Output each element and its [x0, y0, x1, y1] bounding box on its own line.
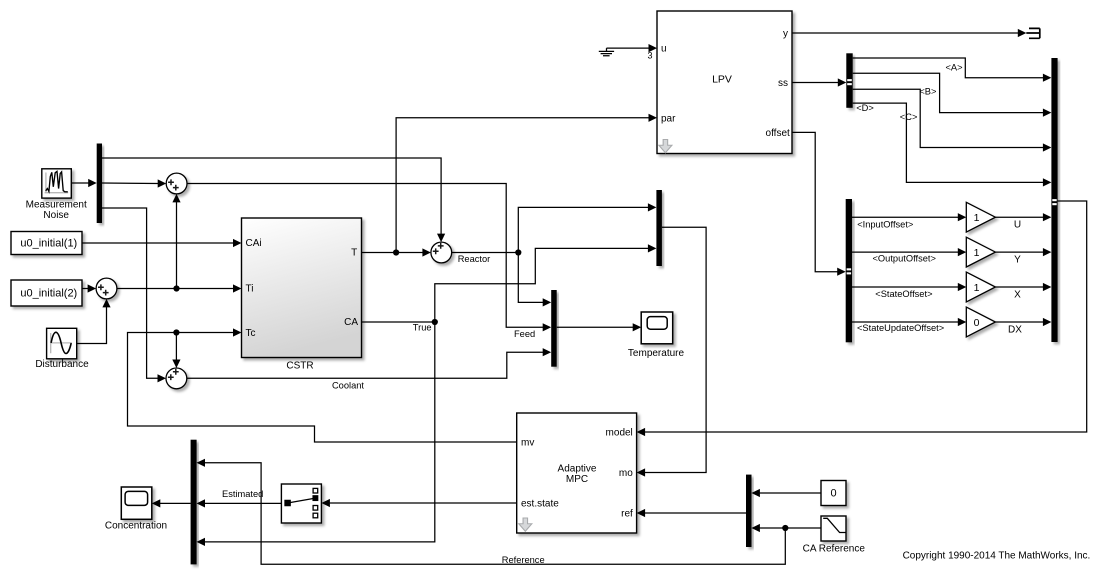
svg-text:Concentration: Concentration: [105, 521, 167, 532]
svg-text:Coolant: Coolant: [332, 380, 364, 390]
svg-text:u: u: [661, 44, 667, 55]
svg-text:Y: Y: [1014, 254, 1021, 265]
wire constant 0 -> ref mux B8 in1: [751, 489, 821, 497]
svg-text:model: model: [606, 427, 633, 438]
gain G1 value 1: [966, 202, 995, 232]
svg-text:Measurement: Measurement: [26, 200, 87, 211]
block Adaptive MPC: [517, 413, 637, 533]
wire junction T -> LPV par: [396, 114, 657, 253]
svg-text:<B>: <B>: [919, 86, 936, 96]
svg-text:CA: CA: [344, 317, 358, 328]
bus selector B5 (offset): [846, 199, 852, 342]
svg-text:X: X: [1014, 289, 1021, 300]
svg-text:ref: ref: [621, 509, 633, 520]
sum S2: [96, 278, 117, 299]
wire node True -> mux B2 in2: [435, 244, 657, 322]
svg-text:1: 1: [974, 282, 980, 294]
scope Concentration: [121, 487, 152, 519]
sum S3: [166, 368, 187, 389]
wire ref mux B8 -> MPC ref: [637, 509, 746, 517]
svg-text:mv: mv: [521, 438, 534, 449]
svg-text:ss: ss: [778, 78, 788, 89]
CA Reference step icon: [823, 518, 846, 532]
wire node Reactor -> feed mux B3 in1: [518, 253, 551, 307]
block CA Reference: [821, 516, 846, 541]
wire feed mux B3 -> Temperature scope: [557, 323, 641, 331]
wire sum S1 -> feed mux B3 in2 (Feed): [187, 184, 551, 332]
svg-text:Adaptive: Adaptive: [558, 463, 597, 474]
sum Reactor: [431, 242, 452, 263]
bus selector B4 (ss): [846, 53, 852, 108]
svg-text:DX: DX: [1008, 324, 1022, 335]
svg-text:<InputOffset>: <InputOffset>: [857, 219, 913, 229]
constant u0_initial(2): [11, 280, 82, 306]
svg-text:par: par: [661, 113, 676, 124]
svg-text:CSTR: CSTR: [286, 361, 313, 372]
wire MPC est.state -> selector: [321, 499, 516, 507]
svg-text:0: 0: [974, 317, 980, 329]
wire B1 out2 -> sum S1 left: [102, 179, 166, 187]
wire LPV offset -> bus selector B5: [792, 132, 846, 275]
svg-text:True: True: [413, 322, 432, 332]
bus creator B6: [1051, 58, 1057, 342]
constant u0_initial(1): [11, 232, 82, 255]
wire node Reactor -> mux B2 in1: [518, 203, 656, 252]
scope Temperature: [641, 312, 673, 344]
svg-text:CA Reference: CA Reference: [803, 543, 866, 554]
wire ground -> LPV u: [607, 44, 658, 52]
wire CSTR CA -> node True: [362, 319, 438, 325]
wire mux B2 -> MPC mo: [637, 227, 707, 476]
svg-text:<C>: <C>: [900, 112, 918, 122]
svg-text:<StateOffset>: <StateOffset>: [875, 289, 932, 299]
wire CSTR T -> sum Reactor left (junction to LPV par): [362, 248, 431, 256]
gain G3 value 1: [966, 272, 995, 302]
wire B4 <A> -> mux B6 in1: [853, 58, 1052, 82]
Disturbance sine icon: [50, 332, 72, 353]
wire gain G3 -> mux B6 in7 (X): [995, 283, 1051, 291]
svg-text:3: 3: [647, 51, 652, 61]
wire Measurement Noise -> demux B1: [71, 179, 96, 187]
svg-text:u0_initial(1): u0_initial(1): [20, 238, 77, 250]
wire node True -> conc mux B7 in3: [197, 322, 435, 546]
svg-text:Estimated: Estimated: [222, 489, 263, 499]
svg-text:Ti: Ti: [246, 284, 254, 295]
svg-text:1: 1: [974, 212, 980, 224]
mux B8 (ref): [746, 475, 752, 547]
wire selector -> conc mux B7 in2 (Estimated): [197, 499, 282, 507]
wire B5 StateUpdateOffset -> gain G4: [852, 318, 966, 326]
block Selector: [281, 484, 321, 523]
wire LPV ss -> bus selector B4: [792, 78, 846, 86]
block Measurement Noise: [42, 169, 72, 198]
svg-text:U: U: [1014, 220, 1021, 231]
svg-text:offset: offset: [766, 128, 790, 139]
block Disturbance: [47, 328, 77, 359]
MPC look-under-mask arrow: [519, 518, 532, 531]
wire junction Ti -> sum S1 bottom: [172, 194, 180, 289]
gain G4 value 0: [966, 307, 995, 337]
svg-text:u0_initial(2): u0_initial(2): [20, 287, 77, 299]
wire mux B6 -> MPC model: [637, 201, 1087, 436]
subsystem LPV: [657, 11, 792, 154]
wire B4 <B> -> mux B6 in2: [853, 73, 1052, 117]
gain G2 value 1: [966, 237, 995, 267]
mux B2 (measured outputs): [656, 190, 662, 266]
svg-text:Copyright 1990-2014 The MathWo: Copyright 1990-2014 The MathWorks, Inc.: [903, 551, 1091, 562]
svg-text:<StateUpdateOffset>: <StateUpdateOffset>: [857, 323, 944, 333]
subsystem CSTR: [242, 218, 362, 358]
wire B1 out3 -> sum S3 left: [102, 208, 166, 382]
svg-text:CAi: CAi: [246, 238, 262, 249]
mux B7 (concentration): [191, 440, 197, 565]
svg-text:1: 1: [974, 247, 980, 259]
wire sum S2 -> CSTR Ti (junction to S1): [117, 284, 242, 292]
wire u0_initial(2) -> sum S2 left: [82, 284, 96, 292]
wire u0_initial(1) -> CSTR CAi: [82, 239, 242, 247]
svg-text:Reference: Reference: [502, 555, 545, 565]
svg-text:Disturbance: Disturbance: [35, 359, 89, 370]
wire B4 <C> -> mux B6 in3: [853, 89, 1052, 151]
svg-text:MPC: MPC: [566, 474, 588, 485]
wire MPC mv -> CSTR Tc (junction to S3): [128, 328, 517, 442]
svg-text:Feed: Feed: [514, 329, 535, 339]
svg-text:T: T: [351, 247, 357, 258]
svg-text:est.state: est.state: [521, 498, 559, 509]
wire conc mux B7 -> Concentration scope: [152, 499, 191, 507]
Measurement Noise icon: [45, 171, 69, 193]
wire LPV y -> terminator: [792, 29, 1026, 37]
wire gain G2 -> mux B6 in6 (Y): [995, 248, 1051, 256]
svg-text:y: y: [783, 29, 788, 40]
wire B1 out1 -> sum Reactor top: [102, 158, 445, 242]
wire B4 <D> -> mux B6 in4: [853, 103, 1052, 186]
wire sum S3 -> feed mux B3 in3 (Coolant): [187, 348, 551, 378]
wire node CA ref -> conc mux B7 in1 (Reference): [197, 459, 786, 565]
svg-text:<A>: <A>: [945, 62, 962, 72]
sum S1: [166, 173, 187, 194]
wire Disturbance -> sum S2 bottom: [77, 299, 111, 344]
wire B5 StateOffset -> gain G3: [852, 283, 966, 291]
svg-text:Reactor: Reactor: [458, 254, 491, 264]
svg-text:LPV: LPV: [712, 74, 732, 86]
demux B1 (noise): [97, 144, 102, 224]
svg-text:Noise: Noise: [43, 210, 69, 221]
wire B5 OutputOffset -> gain G2: [852, 248, 966, 256]
LPV look-under-mask arrow: [659, 140, 672, 153]
wire gain G4 -> mux B6 in8 (DX): [995, 318, 1051, 326]
wire B5 InputOffset -> gain G1: [852, 213, 966, 221]
wire sum Reactor -> node (branch): [452, 249, 522, 255]
terminator: [1026, 28, 1040, 38]
svg-text:<OutputOffset>: <OutputOffset>: [873, 254, 936, 264]
mux B3 (feed): [551, 290, 557, 367]
wire gain G1 -> mux B6 in5 (U): [995, 213, 1051, 221]
constant 0: [821, 481, 846, 506]
svg-text:mo: mo: [619, 468, 633, 479]
wire CA Reference -> ref mux B8 in2 (junction): [751, 524, 821, 532]
svg-text:Tc: Tc: [246, 328, 256, 339]
ground symbol: [599, 48, 614, 56]
wire junction Tc -> sum S3 top: [172, 333, 180, 369]
svg-text:Temperature: Temperature: [628, 348, 685, 359]
svg-text:0: 0: [830, 488, 836, 500]
svg-text:<D>: <D>: [856, 103, 874, 113]
